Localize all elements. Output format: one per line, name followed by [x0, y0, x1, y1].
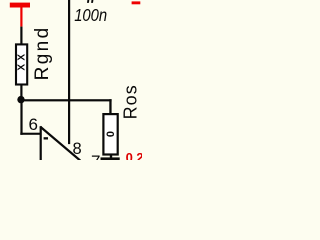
resistor Rgnd body [16, 44, 27, 84]
svg-text:7: 7 [91, 152, 100, 160]
svg-text:Rgnd: Rgnd [32, 28, 53, 81]
svg-text:8: 8 [73, 140, 82, 158]
wire: vertical from top (cap 100n) through cross to op-amp pin 8 [68, 0, 70, 144]
partial red annotation (cut at top right) [132, 1, 141, 4]
junction dot [17, 96, 24, 103]
ground bar [101, 157, 120, 160]
op-amp minus marker [44, 137, 48, 139]
op-amp top edge (diagonal) [40, 127, 80, 161]
power stem (red) [20, 7, 22, 27]
wire: horizontal to inverting input [20, 133, 41, 135]
power supply bar (red T symbol) [10, 3, 30, 8]
partial label stubs (bottom of text cut at top edge) [87, 0, 89, 3]
svg-text:6: 6 [29, 115, 38, 134]
svg-text:Ros: Ros [120, 85, 140, 119]
wire: supply to Rgnd top [20, 27, 22, 44]
svg-text:0: 0 [105, 131, 117, 137]
wire: main horizontal node y=100 [20, 99, 112, 101]
wire: Rgnd bottom to junction [20, 85, 22, 98]
svg-text:100n: 100n [74, 5, 107, 25]
wire: corner down to Ros [109, 99, 111, 114]
resistor Ros body [103, 114, 117, 154]
op-amp left edge [40, 126, 42, 160]
wire: Ros bottom stem [110, 156, 112, 159]
svg-text:0.2: 0.2 [126, 150, 142, 160]
wire: junction down to inverting input [20, 100, 22, 135]
